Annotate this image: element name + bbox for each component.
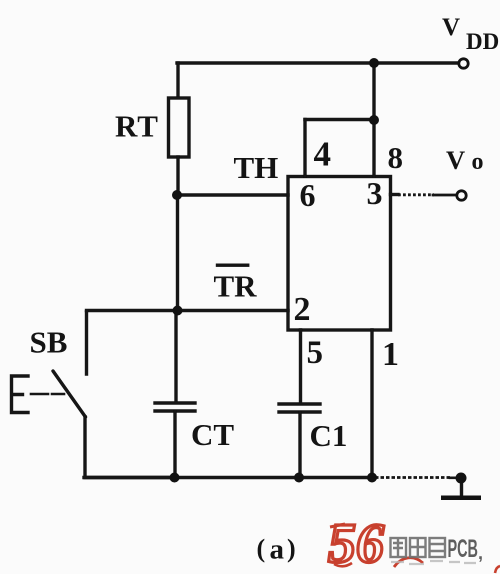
label TR overline: [216, 264, 250, 267]
wire SB upper branch: [85, 312, 88, 374]
wire bottom rail dotted segment: [375, 476, 452, 479]
svg-text:3: 3: [367, 175, 383, 211]
svg-text:CT: CT: [191, 417, 234, 452]
terminal Vo: [457, 191, 466, 200]
junction node pin4/pin8 link: [369, 115, 379, 125]
wire pin5 vertical: [299, 330, 302, 403]
svg-text:o: o: [472, 149, 484, 175]
svg-text:2: 2: [294, 291, 311, 328]
pushbutton actuator E: [12, 376, 29, 413]
svg-text:RT: RT: [115, 109, 159, 144]
svg-text:DD: DD: [466, 29, 499, 54]
wire pin4 vertical: [303, 120, 306, 177]
junction node TH: [172, 190, 182, 200]
wire RT top: [176, 63, 179, 99]
junction node TR: [173, 306, 183, 316]
wire CT bottom: [173, 412, 176, 478]
svg-text:TH: TH: [234, 150, 279, 185]
svg-text:1: 1: [382, 336, 399, 373]
ground stem: [460, 479, 463, 496]
junction node top rail / pin8: [369, 58, 379, 68]
svg-text:SB: SB: [30, 325, 68, 360]
svg-text:C1: C1: [310, 418, 348, 453]
svg-text:TR: TR: [214, 269, 258, 304]
junction node pin1 bottom: [367, 473, 377, 483]
svg-text:6: 6: [300, 177, 316, 213]
wire pin4-pin8 top link: [305, 118, 374, 121]
junction node CT bottom: [170, 473, 180, 483]
wire TH: [177, 193, 288, 196]
svg-text:): ): [287, 534, 296, 563]
svg-text:5: 5: [307, 335, 324, 371]
wire C1 bottom: [298, 413, 301, 478]
watermark ghost strokes: [391, 561, 476, 564]
svg-text:V: V: [442, 14, 460, 41]
wire left vertical to TR node: [176, 195, 179, 311]
wire RT bottom: [176, 157, 179, 196]
wire TR horizontal: [87, 309, 289, 312]
wire pin1 vertical: [370, 330, 373, 478]
wire pin8 vertical: [372, 63, 375, 176]
ground bar: [441, 496, 481, 501]
junction node ground: [456, 473, 467, 484]
wire SB lower branch: [85, 417, 174, 478]
resistor RT: [169, 98, 190, 157]
watermark PCB text: [448, 535, 484, 563]
wire pin3 output: [391, 193, 399, 196]
terminal VDD: [459, 59, 468, 68]
capacitor C1: [279, 404, 320, 412]
junction node C1 bottom: [294, 473, 304, 483]
svg-text:V: V: [446, 145, 465, 175]
switch SB arm: [53, 371, 86, 417]
wire CT top: [174, 311, 177, 403]
wire top rail VDD: [177, 61, 457, 64]
svg-text:a: a: [270, 534, 285, 566]
op-amp U1 555 IC body: [288, 177, 391, 331]
svg-text:4: 4: [314, 135, 332, 174]
watermark gray CJK characters: [391, 538, 446, 557]
svg-text:(: (: [257, 534, 266, 563]
pushbutton dashed link: [31, 393, 64, 396]
wire bottom rail: [84, 476, 375, 479]
capacitor CT: [155, 403, 195, 411]
svg-text:,: ,: [478, 543, 483, 563]
watermark red 56 logo: [328, 513, 423, 574]
svg-text:8: 8: [388, 140, 404, 175]
watermark corner red mark: [495, 566, 500, 573]
svg-text:PCB: PCB: [448, 535, 479, 563]
